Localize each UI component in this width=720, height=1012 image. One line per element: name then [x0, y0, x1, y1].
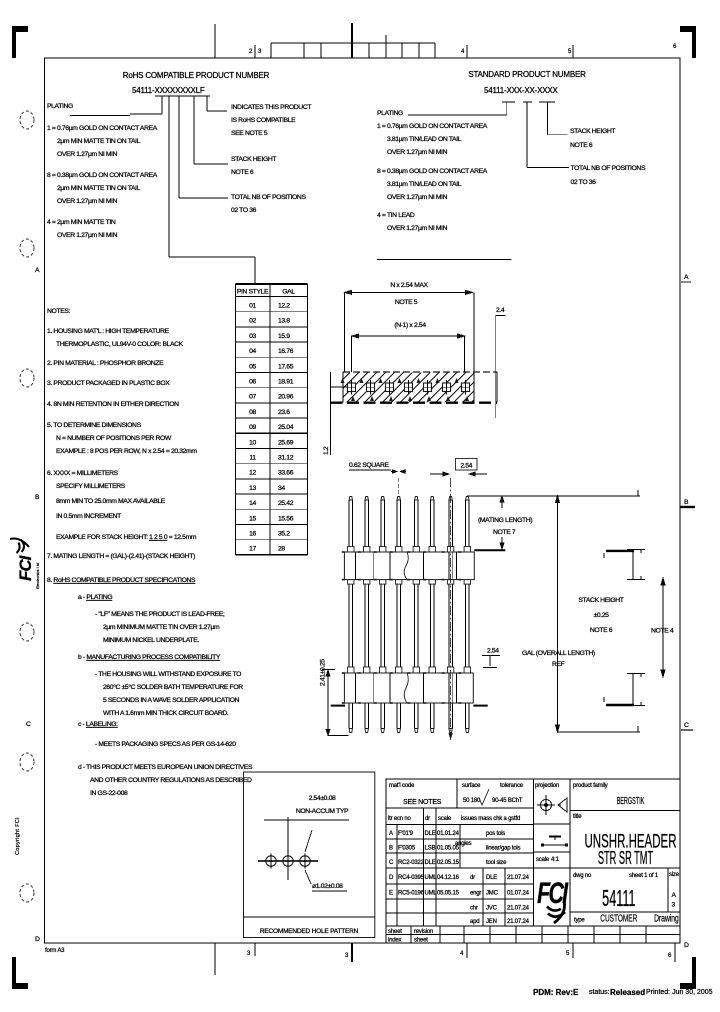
svg-text:- MEETS PACKAGING SPECS AS PER: - MEETS PACKAGING SPECS AS PER GS-14-620	[95, 741, 236, 748]
svg-text:90-45 BChT: 90-45 BChT	[492, 798, 523, 804]
svg-text:3. PRODUCT PACKAGED IN PLASTIC: 3. PRODUCT PACKAGED IN PLASTIC BOX	[47, 380, 170, 387]
svg-text:d - THIS PRODUCT MEETS EUROPEA: d - THIS PRODUCT MEETS EUROPEAN UNION DI…	[78, 764, 253, 771]
svg-text:STACK HEIGHT: STACK HEIGHT	[578, 597, 623, 604]
svg-text:33.66: 33.66	[278, 470, 294, 477]
svg-text:Copyright FCI: Copyright FCI	[15, 817, 21, 855]
svg-text:RC4-0395: RC4-0395	[398, 875, 425, 881]
svg-text:a - PLATING: a - PLATING	[78, 594, 112, 601]
hole pattern box	[244, 772, 375, 938]
svg-text:28: 28	[278, 546, 285, 553]
svg-text:8mm MIN TO 25.0mm MAX AVAILABL: 8mm MIN TO 25.0mm MAX AVAILABLE	[56, 498, 166, 505]
svg-text:sheet 1 of 1: sheet 1 of 1	[629, 873, 659, 879]
svg-text:5. TO DETERMINE DIMENSIONS: 5. TO DETERMINE DIMENSIONS	[47, 422, 142, 429]
svg-text:7. MATING LENGTH = (GAL)-(2.41: 7. MATING LENGTH = (GAL)-(2.41)-(STACK H…	[47, 553, 195, 560]
svg-text:15.9: 15.9	[278, 333, 290, 340]
svg-text:1.2: 1.2	[323, 446, 330, 455]
svg-text:IN 0.5mm INCREMENT: IN 0.5mm INCREMENT	[56, 513, 121, 520]
svg-text:CUSTOMER: CUSTOMER	[600, 912, 637, 924]
2.54 boxed dim	[456, 459, 478, 471]
hole circles	[258, 860, 318, 862]
left margin zone letters	[26, 267, 40, 943]
svg-text:DLE: DLE	[425, 860, 436, 866]
svg-text:35.2: 35.2	[278, 531, 290, 538]
svg-text:scale: scale	[536, 857, 550, 863]
dimension N x 2.54 MAX	[345, 290, 474, 372]
dimension (N-1) x 2.54	[352, 334, 465, 372]
pins front view	[348, 497, 354, 733]
svg-text:form A3: form A3	[45, 948, 65, 954]
svg-text:14: 14	[249, 500, 256, 507]
svg-text:UML: UML	[425, 875, 438, 881]
svg-text:SEE NOTES: SEE NOTES	[403, 799, 442, 806]
svg-text:tool size: tool size	[486, 860, 507, 866]
svg-text:NOTE 6: NOTE 6	[570, 142, 593, 149]
lower housing front view	[344, 673, 473, 703]
svg-text:STACK HEIGHT: STACK HEIGHT	[231, 156, 276, 163]
left margin FCI logo (rotated)	[10, 539, 40, 589]
svg-text:20.96: 20.96	[278, 394, 294, 401]
svg-text:±0.25: ±0.25	[593, 612, 609, 619]
svg-text:engr: engr	[470, 891, 481, 897]
svg-text:UML: UML	[425, 891, 438, 897]
corner crop mark bottom-left	[12, 957, 28, 989]
drawing border frame	[45, 58, 681, 943]
svg-text:13.8: 13.8	[278, 318, 290, 325]
svg-text:OVER 1.27µm NI MIN: OVER 1.27µm NI MIN	[57, 232, 118, 239]
svg-text:AND OTHER COUNTRY REGULATIONS: AND OTHER COUNTRY REGULATIONS AS DESCRIB…	[90, 777, 252, 784]
svg-text:F'0305: F'0305	[398, 846, 416, 852]
svg-text:2µm MIN MATTE TIN ON TAIL: 2µm MIN MATTE TIN ON TAIL	[57, 138, 141, 145]
svg-text:OVER 1.27µm NI MIN: OVER 1.27µm NI MIN	[57, 151, 118, 158]
svg-text:WITH A 1.6mm MIN THICK CIRCUIT: WITH A 1.6mm MIN THICK CIRCUIT BOARD.	[103, 710, 229, 717]
svg-text:GAL (OVERALL LENGTH): GAL (OVERALL LENGTH)	[522, 650, 595, 657]
svg-text:08: 08	[249, 409, 256, 416]
svg-text:34: 34	[278, 485, 285, 492]
svg-text:JVC: JVC	[486, 906, 498, 912]
svg-text:02.05.15: 02.05.15	[437, 860, 460, 866]
svg-text:DLE: DLE	[486, 875, 497, 881]
svg-text:JEN: JEN	[486, 919, 497, 925]
svg-text:RC2-0322: RC2-0322	[398, 860, 425, 866]
svg-text:Electronics I td: Electronics I td	[35, 563, 40, 589]
svg-text:apd: apd	[470, 919, 479, 925]
svg-text:D: D	[35, 936, 40, 943]
svg-text:1. HOUSING MAT'L : HIGH TEMPER: 1. HOUSING MAT'L : HIGH TEMPERATURE	[47, 328, 170, 335]
pcb board lines	[331, 705, 345, 707]
svg-text:8 = 0.38µm GOLD ON CONTACT ARE: 8 = 0.38µm GOLD ON CONTACT AREA	[47, 172, 158, 179]
housing edge dashes	[342, 552, 462, 703]
svg-text:EXAMPLE : 8 POS PER ROW, N x 2: EXAMPLE : 8 POS PER ROW, N x 2.54 = 20.3…	[56, 448, 197, 455]
svg-text:mat'l code: mat'l code	[389, 783, 415, 789]
right margin zone letters	[684, 274, 689, 949]
svg-text:8 = 0.38µm GOLD ON CONTACT ARE: 8 = 0.38µm GOLD ON CONTACT AREA	[377, 168, 488, 175]
FCI logo title block	[537, 875, 569, 923]
pin squares top view	[341, 378, 356, 401]
svg-text:MINIMUM NICKEL UNDERPLATE.: MINIMUM NICKEL UNDERPLATE.	[103, 637, 199, 644]
svg-text:STANDARD PRODUCT NUMBER: STANDARD PRODUCT NUMBER	[468, 70, 586, 79]
upper housing profile side	[604, 550, 645, 581]
svg-text:TOTAL NB OF POSITIONS: TOTAL NB OF POSITIONS	[231, 194, 306, 201]
callout: stack height std	[570, 128, 646, 186]
svg-text:NOTES:: NOTES:	[47, 308, 71, 315]
svg-text:NOTE 6: NOTE 6	[590, 627, 613, 634]
svg-text:PLATING: PLATING	[377, 110, 403, 117]
upper housing front view	[344, 552, 474, 580]
svg-text:type: type	[574, 918, 585, 924]
svg-text:2.54: 2.54	[487, 648, 499, 655]
svg-text:E: E	[389, 891, 393, 897]
svg-text:PDM: Rev:E: PDM: Rev:E	[533, 988, 579, 997]
svg-text:2µm MIN MATTE TIN ON TAIL: 2µm MIN MATTE TIN ON TAIL	[57, 185, 141, 192]
centerline front view	[450, 478, 452, 740]
svg-text:8. RoHS COMPATIBLE PRODUCT SPE: 8. RoHS COMPATIBLE PRODUCT SPECIFICATION…	[47, 577, 196, 584]
svg-text:07: 07	[249, 394, 256, 401]
PDM status line	[533, 988, 713, 997]
svg-text:pos tols: pos tols	[486, 831, 505, 837]
lower housing profile side	[604, 674, 645, 706]
svg-text:04.12.16: 04.12.16	[437, 875, 460, 881]
svg-text:NOTE 6: NOTE 6	[231, 169, 254, 176]
svg-text:2.4: 2.4	[496, 307, 505, 314]
svg-text:31.12: 31.12	[278, 455, 294, 462]
svg-text:SPECIFY MILLIMETERS: SPECIFY MILLIMETERS	[56, 483, 126, 490]
svg-text:05.05.15: 05.05.15	[437, 891, 460, 897]
svg-text:25.04: 25.04	[278, 424, 294, 431]
svg-text:THERMOPLASTIC, UL94V-0 COLOR:: THERMOPLASTIC, UL94V-0 COLOR: BLACK	[56, 341, 184, 348]
svg-text:21.07.24: 21.07.24	[507, 875, 530, 881]
svg-text:dr: dr	[470, 875, 475, 881]
svg-text:PIN STYLE: PIN STYLE	[237, 289, 269, 296]
svg-text:BERGSTIK: BERGSTIK	[617, 795, 645, 806]
corner crop mark top-right	[680, 26, 696, 58]
svg-text:IN GS-22-008: IN GS-22-008	[90, 790, 128, 797]
svg-text:06: 06	[249, 379, 256, 386]
bottom margin ticks and numbers	[215, 943, 675, 975]
svg-text:NOTE 5: NOTE 5	[395, 299, 418, 306]
svg-text:260°C ±5°C SOLDER BATH TEMPERA: 260°C ±5°C SOLDER BATH TEMPERATURE FOR	[103, 683, 243, 691]
svg-text:3.81µm TIN/LEAD ON TAIL: 3.81µm TIN/LEAD ON TAIL	[387, 181, 462, 188]
svg-text:angles: angles	[455, 841, 472, 847]
svg-text:NOTE 4: NOTE 4	[651, 628, 674, 635]
svg-text:18.91: 18.91	[278, 379, 294, 386]
svg-text:17: 17	[249, 546, 256, 553]
svg-text:GAL: GAL	[282, 289, 295, 296]
svg-text:12: 12	[249, 470, 256, 477]
svg-text:OVER 1.27µm NI MIN: OVER 1.27µm NI MIN	[387, 149, 448, 156]
svg-text:54111: 54111	[602, 885, 635, 911]
top zone ticks and numbers	[249, 44, 677, 55]
svg-text:Released: Released	[610, 988, 645, 997]
svg-text:surface: surface	[462, 783, 481, 789]
svg-text:TOTAL NB OF POSITIONS: TOTAL NB OF POSITIONS	[571, 165, 646, 172]
svg-text:01: 01	[249, 303, 256, 310]
svg-text:25.69: 25.69	[278, 439, 294, 446]
svg-text:2.54±0.08: 2.54±0.08	[309, 795, 336, 802]
svg-text:OVER 1.27µm NI MIN: OVER 1.27µm NI MIN	[387, 194, 448, 201]
svg-text:02 TO 36: 02 TO 36	[231, 207, 257, 214]
svg-text:N x 2.54 MAX: N x 2.54 MAX	[390, 282, 428, 289]
svg-text:13: 13	[249, 485, 256, 492]
svg-text:1 = 0.76µm GOLD ON CONTACT ARE: 1 = 0.76µm GOLD ON CONTACT AREA	[377, 123, 488, 130]
wire tree lines std	[377, 102, 569, 260]
svg-text:3.81µm TIN/LEAD ON TAIL: 3.81µm TIN/LEAD ON TAIL	[387, 136, 462, 143]
svg-text:index: index	[388, 938, 402, 944]
svg-text:(N-1) x 2.54: (N-1) x 2.54	[394, 322, 426, 329]
corner crop mark bottom-right	[680, 957, 696, 989]
svg-text:2µm MINIMUM MATTE TIN OVER 1.2: 2µm MINIMUM MATTE TIN OVER 1.27µm	[103, 624, 220, 631]
svg-text:12.2: 12.2	[278, 303, 290, 310]
svg-text:- THE HOUSING WILL WITHSTAND E: - THE HOUSING WILL WITHSTAND EXPOSURE TO	[95, 671, 241, 678]
svg-text:05: 05	[249, 363, 256, 370]
svg-text:REF: REF	[552, 661, 565, 668]
svg-text:chr: chr	[470, 906, 478, 912]
svg-text:RoHS COMPATIBLE PRODUCT NUMBER: RoHS COMPATIBLE PRODUCT NUMBER	[123, 71, 270, 80]
svg-text:revision: revision	[414, 929, 433, 935]
svg-text:2. PIN MATERIAL : PHOSPHOR BRO: 2. PIN MATERIAL : PHOSPHOR BRONZE	[47, 360, 164, 367]
callout: indicates RoHS	[231, 104, 311, 214]
svg-text:2.54: 2.54	[460, 463, 472, 470]
svg-text:Drawing: Drawing	[654, 912, 679, 924]
svg-text:dwg no: dwg no	[573, 873, 592, 879]
svg-text:4 = TIN LEAD: 4 = TIN LEAD	[377, 212, 415, 219]
third angle projection symbol	[537, 795, 567, 815]
lower pcb line side	[606, 704, 634, 706]
upper pcb line side	[606, 550, 634, 552]
svg-text:STACK HEIGHT: STACK HEIGHT	[570, 128, 615, 135]
svg-text:OVER 1.27µm NI MIN: OVER 1.27µm NI MIN	[387, 225, 448, 232]
svg-text:01.07.24: 01.07.24	[507, 891, 530, 897]
svg-text:11: 11	[249, 455, 256, 462]
svg-text:scale: scale	[438, 816, 452, 822]
svg-text:4:1: 4:1	[551, 857, 560, 863]
svg-text:02: 02	[249, 318, 256, 325]
svg-text:N = NUMBER OF POSITIONS PER RO: N = NUMBER OF POSITIONS PER ROW	[56, 435, 172, 442]
svg-text:C: C	[26, 721, 31, 728]
svg-text:INDICATES THIS PRODUCT: INDICATES THIS PRODUCT	[231, 104, 311, 111]
left margin watermark swirls	[20, 111, 34, 902]
svg-text:03: 03	[249, 333, 256, 340]
svg-text:projection: projection	[535, 783, 559, 789]
note 4 dim	[661, 578, 665, 677]
svg-text:SEE NOTE 5: SEE NOTE 5	[231, 130, 268, 137]
svg-text:STR SR TMT: STR SR TMT	[598, 849, 653, 869]
svg-text:01.01.24: 01.01.24	[437, 831, 460, 837]
svg-text:25.42: 25.42	[278, 500, 294, 507]
svg-text:tolerance: tolerance	[500, 783, 524, 789]
svg-text:NON-ACCUM TYP: NON-ACCUM TYP	[296, 808, 349, 815]
svg-text:15: 15	[249, 515, 256, 522]
svg-text:16: 16	[249, 531, 256, 538]
svg-text:linear/gap tols: linear/gap tols	[486, 846, 521, 852]
svg-text:c - LABELING:: c - LABELING:	[78, 721, 118, 728]
svg-text:A: A	[389, 831, 393, 837]
svg-text:1 = 0.76µm GOLD ON CONTACT ARE: 1 = 0.76µm GOLD ON CONTACT AREA	[47, 125, 158, 132]
svg-text:LSB: LSB	[425, 846, 436, 852]
svg-text:(MATING LENGTH): (MATING LENGTH)	[478, 517, 532, 524]
svg-text:product family: product family	[573, 783, 608, 789]
corner crop mark top-left	[12, 26, 28, 58]
svg-text:Printed: Jun 30, 2005: Printed: Jun 30, 2005	[646, 989, 713, 996]
top margin fold-mark strip	[215, 23, 435, 58]
svg-text:50 180: 50 180	[463, 798, 481, 804]
leader to hole dia	[305, 830, 312, 884]
(MATING LENGTH) NOTE 7 dim	[467, 495, 640, 497]
svg-text:4 = 2µm MIN MATTE TIN: 4 = 2µm MIN MATTE TIN	[47, 219, 116, 226]
svg-text:3: 3	[672, 902, 676, 909]
datum symbol cell	[541, 837, 568, 847]
svg-text:21.07.24: 21.07.24	[507, 906, 530, 912]
svg-text:09: 09	[249, 424, 256, 431]
svg-text:DLE: DLE	[425, 831, 436, 837]
svg-text:PLATING: PLATING	[47, 103, 73, 110]
svg-text:15.56: 15.56	[278, 515, 294, 522]
title block grid	[386, 779, 680, 943]
svg-text:23.6: 23.6	[278, 409, 290, 416]
svg-text:title: title	[573, 814, 582, 820]
svg-text:B: B	[389, 846, 393, 852]
svg-text:sheet: sheet	[414, 938, 428, 944]
svg-text:21.07.24: 21.07.24	[507, 919, 530, 925]
svg-text:ø1.02±0.08: ø1.02±0.08	[312, 883, 343, 890]
svg-text:10: 10	[249, 439, 256, 446]
svg-text:02 TO 36: 02 TO 36	[571, 179, 597, 186]
svg-text:status:: status:	[589, 989, 610, 996]
svg-text:6. XXXX = MILLIMETERS: 6. XXXX = MILLIMETERS	[47, 470, 119, 477]
svg-text:JMC: JMC	[486, 891, 499, 897]
svg-text:4. 8N MIN RETENTION IN EITHER: 4. 8N MIN RETENTION IN EITHER DIRECTION	[47, 401, 179, 408]
svg-text:2.41±0.25: 2.41±0.25	[320, 659, 327, 686]
svg-text:ltr ecn no: ltr ecn no	[388, 816, 412, 822]
svg-text:04: 04	[249, 348, 256, 355]
svg-text:RECOMMENDED HOLE PATTERN: RECOMMENDED HOLE PATTERN	[260, 928, 359, 935]
svg-text:b - MANUFACTURING PROCESS COMP: b - MANUFACTURING PROCESS COMPATIBILITY	[78, 654, 221, 661]
wire tree lines rohs	[70, 96, 255, 284]
svg-text:D: D	[684, 942, 689, 949]
svg-text:OVER 1.27µm NI MIN: OVER 1.27µm NI MIN	[57, 198, 118, 205]
svg-text:IS RoHS COMPATIBLE: IS RoHS COMPATIBLE	[231, 117, 296, 124]
svg-text:17.65: 17.65	[278, 363, 294, 370]
svg-text:0.62 SQUARE: 0.62 SQUARE	[349, 462, 389, 469]
svg-text:EXAMPLE FOR STACK HEIGHT: 1 2: EXAMPLE FOR STACK HEIGHT: 1 2 5 0 = 12.5…	[56, 534, 197, 541]
svg-text:NOTE 7: NOTE 7	[493, 529, 516, 536]
svg-text:5 SECONDS IN A WAVE SOLDER APP: 5 SECONDS IN A WAVE SOLDER APPLICATION	[103, 697, 240, 704]
svg-text:16.76: 16.76	[278, 348, 294, 355]
GAL overall length dim	[556, 490, 641, 732]
svg-text:FCI: FCI	[16, 554, 35, 581]
svg-text:C: C	[684, 722, 689, 729]
svg-text:- "LF" MEANS THE PRODUCT IS LE: - "LF" MEANS THE PRODUCT IS LEAD-FREE;	[95, 611, 225, 618]
svg-text:RC5-0196: RC5-0196	[398, 891, 425, 897]
svg-text:sheet: sheet	[388, 929, 402, 935]
svg-text:issues mass chk a gstfd: issues mass chk a gstfd	[461, 816, 520, 822]
header body top view hatched band	[343, 373, 474, 403]
svg-text:54111-XXX-XX-XXXX: 54111-XXX-XX-XXXX	[484, 86, 559, 95]
svg-text:F'01'9: F'01'9	[398, 831, 414, 837]
left extension and 1.2 dim	[330, 372, 332, 455]
svg-text:54111-XXXXXXXXLF: 54111-XXXXXXXXLF	[132, 86, 205, 95]
left margin copyright text (rotated)	[15, 817, 21, 855]
svg-text:dr: dr	[425, 816, 430, 822]
svg-text:size: size	[669, 872, 680, 878]
